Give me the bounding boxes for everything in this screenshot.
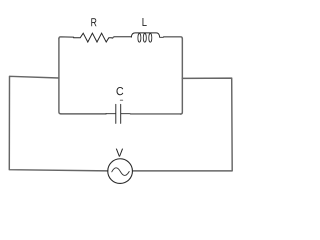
label V [116,149,123,157]
AC source sine wave [112,168,129,176]
wire bottom edge left segment [61,113,106,115]
inductor L [131,33,163,42]
label L [143,18,147,26]
wire left edge of inner loop [59,39,61,114]
dash mark below C label [120,99,122,101]
wire right edge of inner loop [181,39,183,114]
resistor R [74,33,113,42]
wire top edge right segment [164,37,183,39]
label R [91,18,96,26]
wire right branch and right/bottom outer loop [133,78,233,171]
AC source V circle [108,159,133,184]
wire top edge left segment [59,37,74,39]
wire bottom edge right segment [131,113,181,115]
label C [117,87,124,95]
wire left branch and left/bottom outer loop [9,76,107,171]
wire between R and L [112,37,131,39]
capacitor C [106,104,131,123]
